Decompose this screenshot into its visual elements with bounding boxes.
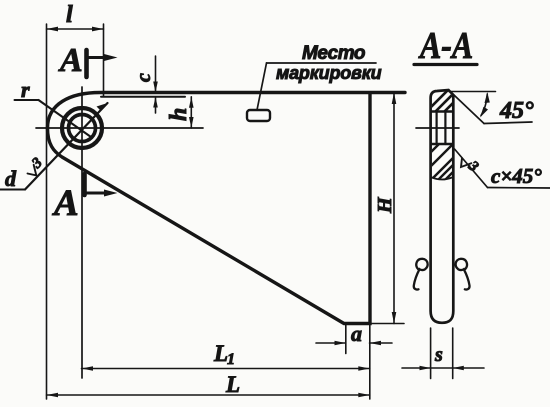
wire: bottom edge extension to H dimension [370,323,404,325]
dimension a: extension line [345,325,347,354]
underline of A-A title [414,63,477,66]
circle: hub outer circle [62,108,102,148]
wire: horizontal centerline of hole / h extension [36,127,203,129]
section hole centerline [416,127,459,129]
svg-text:45°: 45° [499,98,534,124]
section cut A lower: view-direction arrow [85,192,109,195]
circle: hub inner circle (hole d) [69,115,96,142]
wire: chamfer line below top edge [101,96,185,98]
marking spot rectangle [247,110,270,121]
svg-text:r: r [21,77,30,102]
break squiggle left [414,259,428,290]
wire: vertical centerline of hole / L1 extension [81,87,83,378]
dimension l: dimension line with arrows [47,28,104,30]
wire: plate outline (top edge, boss arc, hypotenuse, bottom edge, right edge) [48,93,406,324]
dimension c: dimension line with outside arrows [155,56,157,93]
svg-text:l: l [66,2,73,28]
section cut A lower: thick stroke [82,174,87,195]
svg-text:A: A [52,183,79,224]
leader r: shelf and radius line [15,99,39,101]
dimension s: extension lines [430,328,432,379]
break squiggle right [456,259,470,290]
svg-text:a: a [351,321,362,346]
lower hatch bottom boundary [432,178,452,180]
svg-text:A: A [58,42,83,79]
45 deg callout: chamfer leader and shelf [449,90,484,124]
section cut A upper: view-direction arrow [87,56,109,59]
45 deg callout: angle arc with arrows [481,94,487,116]
svg-text:H: H [374,196,396,214]
svg-text:h: h [166,108,192,121]
dimension L: dimension line with arrows [47,394,370,396]
svg-text:1: 1 [227,351,235,368]
dimension l: extension lines [46,24,48,399]
svg-text:3: 3 [464,158,481,176]
svg-text:L: L [213,341,228,366]
leader: место маркировки [257,63,267,110]
svg-text:L: L [225,372,240,397]
hole chamfer edge left [436,112,438,144]
svg-text:c×45°: c×45° [491,164,542,188]
section cut A upper: thick stroke [84,50,89,77]
dimension a: dimension lines with inward arrows [316,342,346,344]
svg-text:c: c [133,73,155,82]
svg-text:маркировки: маркировки [276,63,382,83]
leader d: shelf, diagonal through hole, arrowhead on boss arc [0,189,25,191]
surface finish symbol on chamfer leader [457,151,481,175]
dimension s: dimension line with inward arrows [402,367,484,369]
hole window top line [432,110,452,112]
dimension H: dimension line with arrows [393,93,395,324]
c x 45 callout: leader and shelf [455,149,488,188]
section bar outline [431,90,454,323]
45 deg callout: top tangent extension line [449,91,496,93]
hole chamfer edge right [444,112,446,144]
svg-text:A-A: A-A [418,24,473,66]
svg-text:d: d [5,166,17,191]
svg-text:s: s [434,344,443,366]
hole window bottom line [432,143,452,145]
wire: right edge extension below plate [369,324,371,400]
dimension L1: dimension line with arrows [82,368,370,370]
surface finish symbol on d leader [22,155,46,179]
svg-text:Место: Место [302,43,365,64]
dimension h: dimension line with arrows [190,97,192,128]
